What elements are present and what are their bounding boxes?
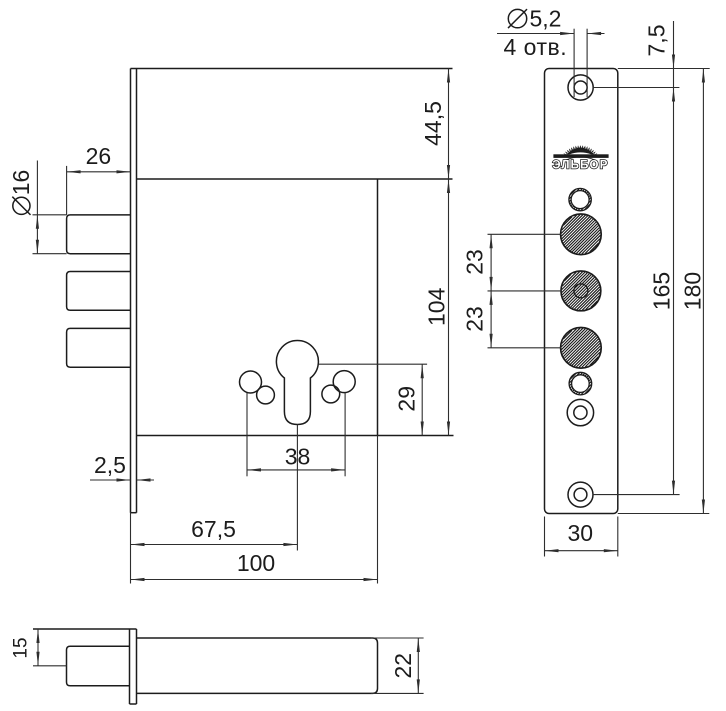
dim 67,5: [131, 544, 298, 546]
dim 44,5 and 104 line: [448, 69, 450, 436]
svg-text:100: 100: [237, 550, 275, 576]
svg-text:15: 15: [11, 637, 32, 658]
dim 26: [67, 171, 131, 173]
svg-text:104: 104: [423, 287, 449, 326]
svg-text:38: 38: [285, 444, 311, 470]
keyhole centreline: [296, 425, 298, 551]
dim 2,5: [90, 479, 131, 481]
svg-text:26: 26: [86, 143, 112, 169]
small hole below: [567, 399, 593, 425]
bolt hole circle 2: [562, 272, 600, 310]
dim 23 line: [490, 234, 492, 347]
dim 38: [247, 469, 345, 471]
svg-text:44,5: 44,5: [420, 101, 446, 146]
svg-text:67,5: 67,5: [191, 516, 236, 542]
deadbolt 3 (left view): [67, 328, 131, 367]
deadbolt (bottom view): [67, 646, 130, 686]
bolt hole circle 3: [561, 328, 600, 367]
dim 30 ext lines: [544, 517, 546, 557]
dim 22 ext lines: [371, 637, 424, 639]
dim 29: [421, 364, 423, 435]
svg-text:ЭЛЬБОР: ЭЛЬБОР: [552, 160, 608, 172]
dim O5,2 ext lines: [573, 29, 575, 97]
euro cylinder keyhole: [276, 341, 318, 425]
svg-text:180: 180: [679, 272, 705, 310]
svg-text:22: 22: [390, 653, 416, 679]
bottom hole centre ext line: [593, 494, 680, 496]
dim 180: [702, 69, 704, 514]
lower ext line right: [377, 436, 379, 584]
faceplate edge-on strip: [130, 69, 132, 513]
body (bottom view): [137, 638, 378, 693]
ELBOR logo bar: [553, 154, 608, 158]
plate bottom ext line: [618, 513, 710, 515]
dim 26 extension line: [66, 166, 68, 215]
left fixing hole: [240, 371, 262, 393]
svg-text:4 отв.: 4 отв.: [504, 34, 568, 60]
right fixing hole: [333, 371, 355, 393]
deadbolt 1 (left view): [67, 215, 131, 254]
top hole centre ext line: [593, 87, 679, 89]
dim 30: [545, 550, 618, 552]
dim 7,5 and 165 line: [673, 21, 675, 495]
dim 38 extension lines: [246, 393, 248, 476]
dim 23 ext lines: [488, 233, 561, 235]
dim 15 ext lines: [33, 628, 137, 630]
top screw hole: [568, 75, 593, 100]
svg-text:7,5: 7,5: [644, 25, 670, 57]
svg-text:29: 29: [394, 386, 420, 412]
plate top ext line: [618, 68, 710, 70]
lock body outline (left view): [131, 68, 453, 70]
dim 22: [417, 638, 419, 693]
deadbolt 2 (left view): [67, 272, 131, 311]
svg-text:30: 30: [568, 520, 594, 546]
svg-text:23: 23: [462, 306, 488, 332]
lower ext line left: [130, 513, 132, 584]
keyhole centre ext line: [319, 363, 428, 365]
bottom screw hole: [568, 482, 593, 507]
svg-text:23: 23: [462, 249, 488, 275]
faceplate outline: [545, 69, 618, 514]
dim O5,2 text: [508, 9, 526, 27]
svg-text:165: 165: [648, 272, 674, 310]
dim 100: [131, 579, 378, 581]
faceplate section (bottom view): [129, 629, 131, 704]
hatched ring lower: [569, 372, 592, 395]
dim O16: [36, 161, 38, 254]
dim O5,2 leader: [497, 33, 574, 35]
hatched ring upper: [569, 188, 591, 210]
svg-text:16: 16: [8, 170, 34, 196]
svg-text:2,5: 2,5: [94, 452, 126, 478]
svg-text:5,2: 5,2: [530, 6, 562, 32]
dim 15: [37, 629, 39, 666]
bolt hole circle 1: [561, 215, 600, 254]
